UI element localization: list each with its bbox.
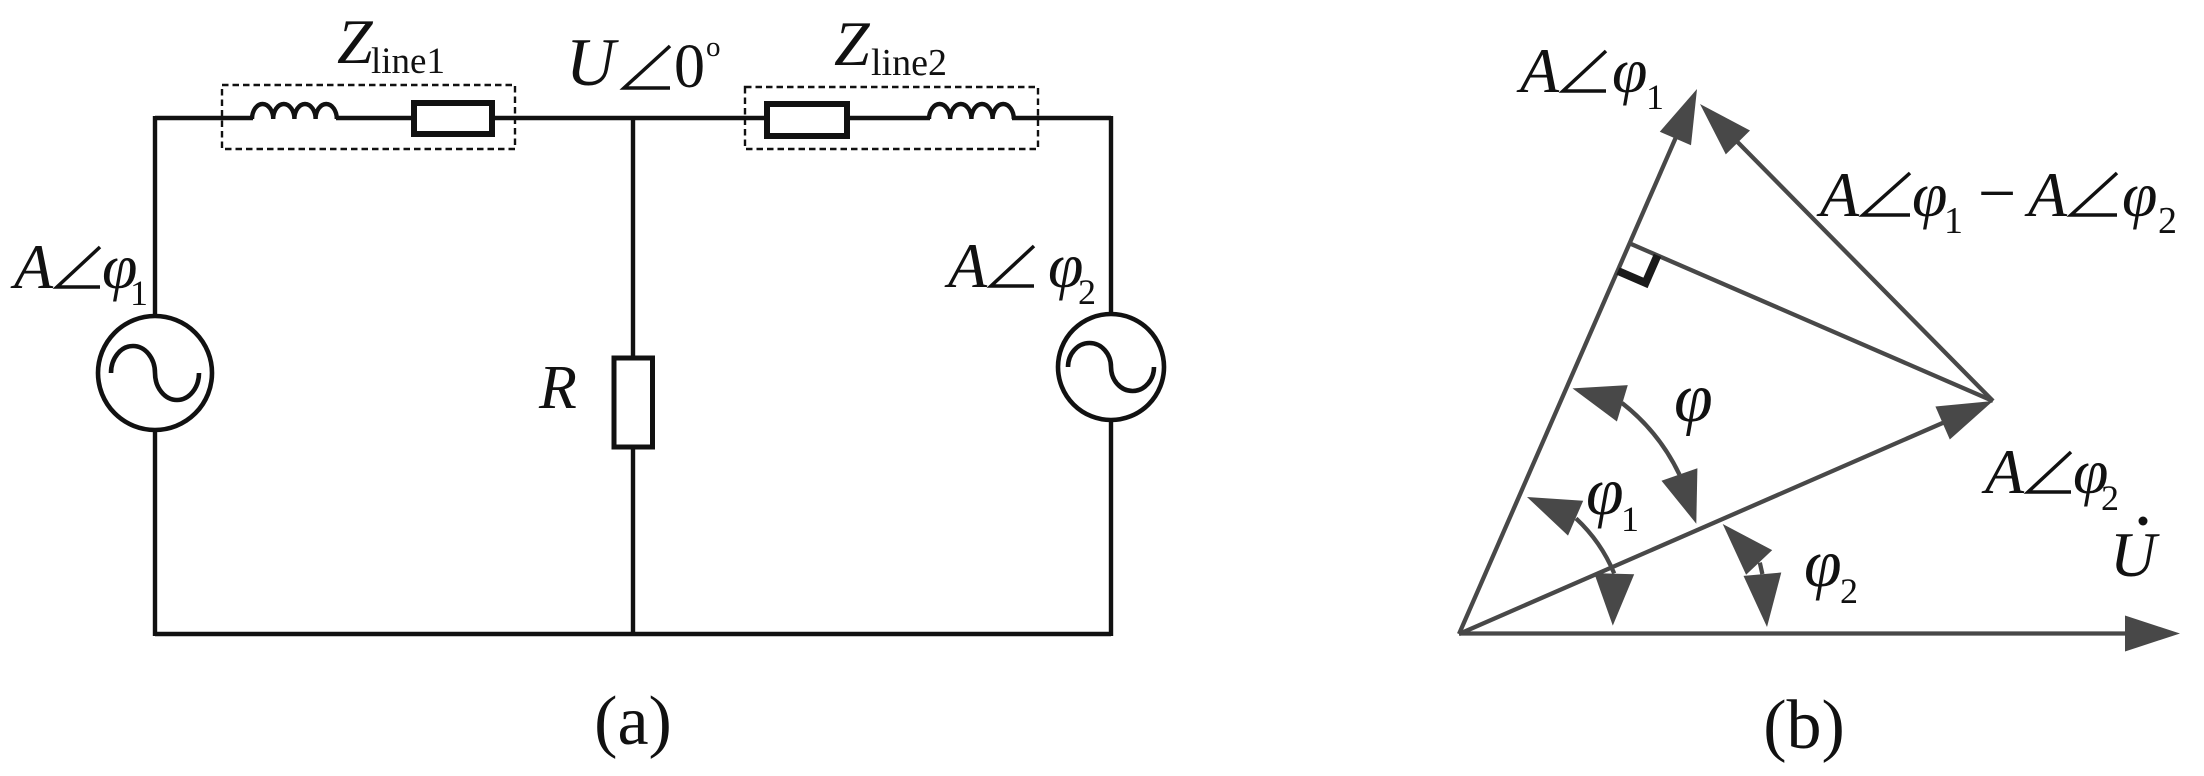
wire: bottom return rail (155, 632, 1111, 636)
svg-text:A: A (1516, 35, 1560, 106)
svg-text:A: A (2024, 159, 2068, 230)
svg-text:1: 1 (1621, 499, 1639, 539)
svg-text:o: o (706, 31, 721, 63)
svg-text:A: A (1981, 436, 2025, 507)
resistor in Z_line1 (414, 103, 492, 134)
svg-text:φ: φ (1612, 35, 1647, 106)
arc phi1 with arrows (1576, 518, 1614, 573)
inductor L1 (252, 104, 337, 119)
svg-text:2: 2 (2158, 200, 2177, 242)
resistor in Z_line2 (767, 104, 847, 136)
arc phi2 with arrows (1760, 563, 1763, 575)
wire: right branch vertical (1109, 116, 1113, 636)
svg-text:φ: φ (1912, 159, 1947, 230)
dot above U (2139, 517, 2148, 526)
phasor U vector (1459, 631, 2139, 635)
wire: middle branch (node U) (631, 118, 635, 636)
AC source 1 (98, 316, 212, 430)
svg-text:2: 2 (1840, 571, 1858, 611)
dashed box Z_line1 (222, 85, 515, 149)
svg-text:φ: φ (2122, 159, 2157, 230)
phasor A phi2 vector (1459, 418, 1955, 635)
svg-text:φ: φ (1804, 525, 1842, 601)
svg-text:line1: line1 (371, 41, 445, 82)
svg-text:A: A (1816, 159, 1860, 230)
svg-text:U: U (2110, 519, 2160, 590)
right angle mark (1618, 255, 1658, 283)
resistor R (614, 358, 653, 447)
svg-text:R: R (538, 354, 577, 422)
svg-text:φ: φ (1674, 360, 1713, 437)
svg-text:A: A (944, 230, 988, 301)
svg-text:1: 1 (130, 273, 148, 313)
AC source 2 (1058, 314, 1164, 420)
svg-text:2: 2 (2101, 478, 2119, 518)
wire: top rail (155, 116, 1111, 120)
altitude from foot on A phi1 to tip of A phi2 (1630, 244, 1993, 402)
dashed box Z_line2 (745, 87, 1038, 149)
svg-text:1: 1 (1646, 77, 1664, 117)
phasor A phi1 vector (1459, 126, 1681, 634)
svg-text:2: 2 (1078, 272, 1096, 312)
svg-text:φ: φ (1586, 453, 1624, 529)
svg-text:A: A (10, 231, 54, 302)
inductor L2 (929, 104, 1014, 119)
svg-text:Z: Z (337, 6, 374, 77)
svg-text:(a): (a) (594, 683, 672, 760)
difference vector A phi1 minus A phi2 (1728, 133, 1993, 401)
svg-text:line2: line2 (871, 42, 947, 84)
svg-text:0: 0 (674, 33, 705, 101)
svg-text:1: 1 (1944, 200, 1963, 242)
arc phi with arrows (1622, 403, 1680, 475)
wire: left branch vertical (153, 116, 157, 636)
svg-text:(b): (b) (1763, 687, 1845, 764)
svg-text:U: U (566, 24, 619, 100)
svg-text:Z: Z (834, 8, 871, 79)
svg-text:−: − (1978, 155, 2016, 231)
